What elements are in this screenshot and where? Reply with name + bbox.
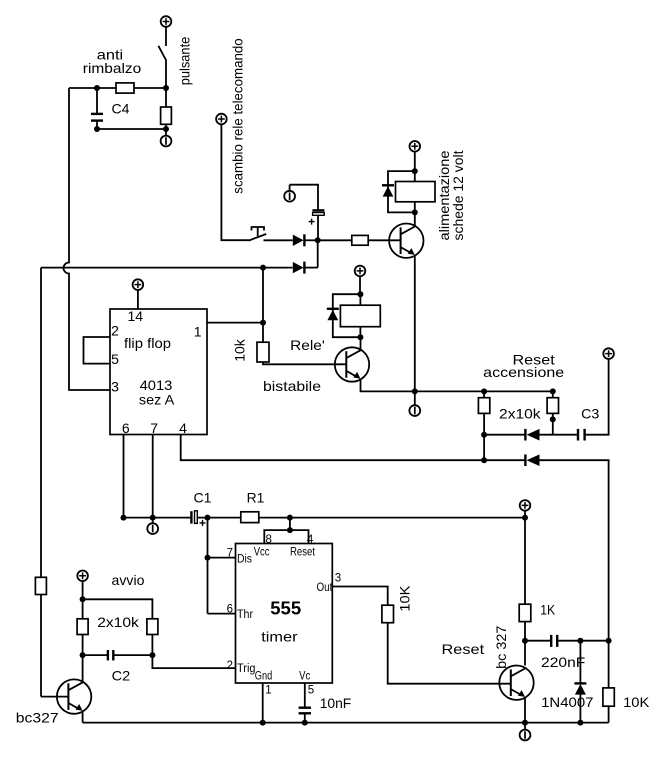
wire xyxy=(304,239,317,241)
node junction xyxy=(149,652,155,658)
ground (pin 7) xyxy=(147,518,158,534)
power symbol (reset) xyxy=(520,500,531,511)
node junction xyxy=(412,168,418,174)
svg-text:Gnd: Gnd xyxy=(255,671,272,683)
svg-text:6: 6 xyxy=(122,420,130,436)
resistor 2x10k left xyxy=(478,391,489,460)
svg-text:8: 8 xyxy=(266,534,272,546)
node junction xyxy=(577,638,583,644)
power symbol (bistabile relay) xyxy=(355,266,366,277)
svg-text:timer: timer xyxy=(261,628,298,644)
resistor anti-rimbalzo xyxy=(116,83,134,93)
node junction xyxy=(260,720,266,726)
wire xyxy=(198,517,241,519)
wire xyxy=(388,623,511,684)
wire row C3 xyxy=(484,434,525,436)
wire from pin1 node down xyxy=(262,268,264,343)
svg-text:scambio rele telecomando: scambio rele telecomando xyxy=(230,38,246,194)
resistor base (alimentazione) xyxy=(352,235,368,245)
node junction xyxy=(205,515,211,521)
node junction xyxy=(577,720,583,726)
polarized capacitor (scambio) xyxy=(309,210,325,240)
node junction xyxy=(481,457,487,463)
transistor bc327 (reset) xyxy=(499,666,533,700)
node junction xyxy=(412,388,418,394)
relay coil (alimentazione) xyxy=(396,182,436,202)
wire bottom rail xyxy=(83,722,609,724)
node junction xyxy=(302,720,308,726)
svg-text:Rele': Rele' xyxy=(290,337,325,353)
wire bottom of C4 xyxy=(97,128,166,130)
node junction xyxy=(481,432,487,438)
ground (reset emitter) xyxy=(520,723,531,741)
wire emitter xyxy=(82,711,84,723)
svg-text:10nF: 10nF xyxy=(320,695,352,711)
wire to base xyxy=(263,362,346,364)
capacitor 10nF (pin 5) xyxy=(299,683,311,723)
svg-text:1N4007: 1N4007 xyxy=(541,694,594,710)
node junction xyxy=(606,638,612,644)
wire (joins D1 and D2 outputs) xyxy=(317,240,319,267)
svg-text:220nF: 220nF xyxy=(541,654,585,670)
wire xyxy=(165,88,167,129)
power symbol scambio xyxy=(216,114,227,125)
wire node top rail xyxy=(69,87,166,89)
flyback diode (bistabile relay) xyxy=(327,309,339,320)
transistor (alimentazione driver) xyxy=(389,224,423,258)
wire xyxy=(165,60,167,88)
resistor 2x10k right (avvio) xyxy=(147,619,158,635)
wire left rail with hop xyxy=(64,88,110,390)
node junction xyxy=(357,291,363,297)
wire xyxy=(414,202,416,213)
svg-text:rimbalzo: rimbalzo xyxy=(83,60,142,76)
wire to base resistor xyxy=(318,239,352,241)
svg-text:7: 7 xyxy=(150,420,158,436)
relay coil (bistabile) xyxy=(340,305,380,327)
node junction xyxy=(80,652,86,658)
svg-text:6: 6 xyxy=(227,604,233,616)
resistor left rail xyxy=(35,577,46,594)
node junction xyxy=(150,515,156,521)
wire emitter xyxy=(524,697,526,723)
power symbol (alimentazione) xyxy=(410,141,421,152)
wire xyxy=(359,327,361,338)
wire xyxy=(524,622,526,666)
wire row2 to right rail xyxy=(540,460,609,641)
resistor 1K xyxy=(519,604,531,621)
diode D3 (to C3) xyxy=(525,429,539,441)
svg-text:10K: 10K xyxy=(623,694,650,710)
wire collector xyxy=(414,212,416,226)
capacitor C2 xyxy=(83,650,153,660)
IC 555 box xyxy=(236,544,333,684)
pushbutton actuator xyxy=(252,227,265,236)
transistor bc327 (avvio) xyxy=(57,679,91,713)
capacitor C4 xyxy=(91,88,103,129)
wire xyxy=(586,359,609,435)
wire emitter xyxy=(361,379,553,392)
resistor 10k xyxy=(257,342,269,362)
wire 8/4 header xyxy=(264,518,308,544)
node junction xyxy=(522,638,528,644)
resistor 2x10k right xyxy=(547,391,558,434)
node junction xyxy=(94,85,100,91)
svg-text:2x10k: 2x10k xyxy=(499,406,542,422)
svg-text:7: 7 xyxy=(227,548,233,560)
diode 1N4007 xyxy=(574,641,586,723)
wire xyxy=(259,517,525,519)
svg-text:4: 4 xyxy=(307,534,314,546)
svg-text:pulsante: pulsante xyxy=(176,37,192,86)
switch pulsante blade xyxy=(158,46,166,61)
wire xyxy=(82,635,84,656)
node junction xyxy=(287,527,293,533)
svg-text:flip flop: flip flop xyxy=(124,335,171,351)
wire xyxy=(580,640,608,642)
svg-text:Reset: Reset xyxy=(290,546,316,558)
power symbol (reset accensione) xyxy=(603,348,614,359)
wire pin 1 xyxy=(207,322,263,324)
svg-text:Vc: Vc xyxy=(299,671,310,683)
svg-text:14: 14 xyxy=(128,308,144,324)
svg-text:4: 4 xyxy=(179,420,187,436)
wire pin 1 xyxy=(262,683,264,723)
node junction xyxy=(205,555,211,561)
wire xyxy=(165,27,167,46)
power symbol (pin 14) xyxy=(133,279,144,290)
svg-text:R1: R1 xyxy=(247,490,265,506)
resistor R1 xyxy=(241,512,259,523)
node junction xyxy=(550,388,556,394)
svg-text:2: 2 xyxy=(227,660,233,672)
svg-text:3: 3 xyxy=(335,572,341,584)
pushbutton blade xyxy=(249,234,267,241)
svg-text:10k: 10k xyxy=(232,338,248,361)
ground (emitter) xyxy=(409,391,420,416)
wire flyback loop xyxy=(388,171,415,212)
svg-text:bc 327: bc 327 xyxy=(493,625,509,669)
wire xyxy=(414,152,416,182)
wire xyxy=(264,239,293,241)
svg-text:C1: C1 xyxy=(194,490,212,506)
svg-text:bc327: bc327 xyxy=(16,709,59,725)
svg-text:avvio: avvio xyxy=(112,572,145,588)
ground xyxy=(161,129,172,146)
svg-text:Vcc: Vcc xyxy=(254,546,270,558)
svg-text:schede 12 volt: schede 12 volt xyxy=(450,150,466,240)
wire row to flip-flop rail xyxy=(41,267,293,269)
wire pin 4 xyxy=(181,435,526,461)
node junction xyxy=(522,720,528,726)
svg-text:Out: Out xyxy=(317,582,333,594)
svg-text:2x10k: 2x10k xyxy=(97,614,140,630)
node junction xyxy=(522,515,528,521)
svg-text:Trig: Trig xyxy=(237,663,256,675)
capacitor C1 (polarized) xyxy=(191,511,205,526)
wire to Trig xyxy=(152,655,235,668)
node junction xyxy=(260,265,266,271)
capacitor 220nF xyxy=(525,635,580,647)
flyback diode (alimentazione relay) xyxy=(382,185,394,196)
wire Out xyxy=(332,587,387,606)
wire xyxy=(82,581,84,619)
resistor 10K (right) xyxy=(603,641,614,723)
node junction xyxy=(94,126,100,132)
svg-text:C4: C4 xyxy=(112,101,130,117)
wire xyxy=(221,124,249,240)
diode D2 xyxy=(293,262,305,274)
transistor (bistabile driver) xyxy=(335,347,369,381)
node junction xyxy=(80,596,86,602)
svg-text:3: 3 xyxy=(111,379,119,395)
svg-text:1: 1 xyxy=(194,323,202,339)
node junction xyxy=(163,126,169,132)
wire xyxy=(359,276,361,294)
svg-text:Dis: Dis xyxy=(237,554,252,566)
resistor below pulsante xyxy=(161,107,172,124)
node junction xyxy=(481,388,487,394)
svg-text:555: 555 xyxy=(270,598,301,619)
power symbol (pulsante supply) xyxy=(161,16,172,27)
wire left rail xyxy=(41,268,68,697)
svg-text:10K: 10K xyxy=(396,585,412,612)
svg-text:accensione: accensione xyxy=(483,364,564,380)
node junction xyxy=(287,515,293,521)
svg-text:bistabile: bistabile xyxy=(263,378,321,394)
capacitor C3 xyxy=(578,429,585,441)
svg-text:5: 5 xyxy=(308,685,314,697)
svg-text:1K: 1K xyxy=(540,602,555,618)
wire pin 6 xyxy=(123,435,125,518)
node junction xyxy=(550,416,556,422)
wire Dis/Thr rail xyxy=(208,518,236,614)
wire xyxy=(524,511,526,605)
wire xyxy=(304,267,317,269)
wire pin2-pin5 loop xyxy=(84,337,111,364)
wire xyxy=(540,434,578,436)
svg-text:Reset: Reset xyxy=(442,641,485,657)
resistor 10K (base of reset transistor) xyxy=(382,605,394,623)
node junction xyxy=(412,209,418,215)
ground (scambio) xyxy=(284,185,295,202)
node junction xyxy=(315,237,321,243)
wire xyxy=(368,239,401,241)
node junction xyxy=(260,320,266,326)
wire xyxy=(124,517,191,519)
diode D4 (row 2) xyxy=(525,454,539,466)
node junction xyxy=(121,515,127,521)
IC flip flop 4013 box xyxy=(110,309,207,435)
svg-text:5: 5 xyxy=(111,351,119,367)
wire pin 7 xyxy=(152,435,154,518)
resistor 2x10k left (avvio) xyxy=(77,619,88,635)
svg-text:2: 2 xyxy=(111,322,119,338)
wire pin 14 xyxy=(137,290,139,309)
svg-text:C2: C2 xyxy=(112,667,131,683)
power symbol avvio xyxy=(77,571,88,582)
wire flyback loop xyxy=(333,294,361,337)
diode D1 xyxy=(293,234,305,246)
wire collector xyxy=(360,337,362,350)
svg-text:1: 1 xyxy=(265,685,271,697)
svg-text:C3: C3 xyxy=(581,406,599,422)
svg-text:sez A: sez A xyxy=(139,391,175,407)
wire xyxy=(151,635,153,656)
wire xyxy=(359,294,361,305)
svg-text:Thr: Thr xyxy=(237,609,253,621)
node junction xyxy=(357,334,363,340)
wire emitter down xyxy=(414,255,416,392)
wire collector rail xyxy=(82,655,84,682)
wire top of divider xyxy=(83,599,153,619)
wire xyxy=(290,185,318,210)
node junction xyxy=(163,85,169,91)
